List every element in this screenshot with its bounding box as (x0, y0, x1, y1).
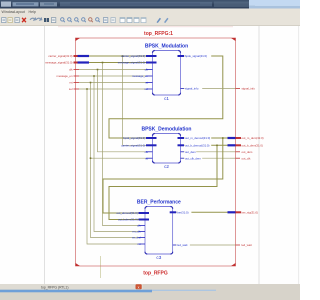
svg-text:Window: Window (2, 10, 15, 14)
svg-text:out_bdem(31:0): out_bdem(31:0) (118, 218, 138, 222)
toolbar icon 8 (doc) (51, 18, 55, 23)
pin c1 rst (145, 81, 153, 85)
pin c2 carrier_signal (121, 143, 156, 147)
wire out_b_demod to port (184, 144, 228, 146)
title bar right (inactive light area) (249, 0, 300, 9)
pin c2 out_dem (181, 150, 197, 154)
svg-text:bpsk_signal(31:0): bpsk_signal(31:0) (123, 136, 145, 140)
toolbar icon 7 (bino) (44, 18, 49, 22)
svg-text:message_en: message_en (132, 74, 148, 78)
pin c1 bpsk_signal (178, 54, 212, 58)
pin c1 carrier_signal (121, 54, 156, 58)
svg-text:out_b_demod(31:0): out_b_demod(31:0) (185, 143, 209, 147)
pin c1 sel (144, 87, 152, 91)
toolbar icon 5 (arrow) (30, 17, 36, 20)
svg-text:rst: rst (145, 81, 148, 85)
svg-text:BPSK_Modulation: BPSK_Modulation (145, 43, 188, 49)
svg-text:carrier_signal(31:0): carrier_signal(31:0) (48, 54, 72, 58)
wire out_m_demod to port (184, 137, 228, 139)
pin c2 out_clk_dem (181, 156, 203, 160)
boundary corner marker top-left (76, 38, 81, 41)
wire clk branch to c2 (98, 70, 147, 152)
toolbar icon 12 (zoom) (82, 18, 86, 23)
tab underline (0, 290, 216, 293)
wire message_en branch to c3 (94, 76, 139, 232)
label top_RFPG:1 (144, 31, 173, 37)
svg-text:clk: clk (145, 68, 149, 72)
junction sel branch (86, 88, 88, 90)
menu bar (0, 9, 300, 15)
toolbar icon 19 (pane) (134, 18, 139, 23)
wire sel branch to c3 (87, 89, 139, 244)
svg-text:BPSK_Demodulation: BPSK_Demodulation (141, 126, 191, 132)
svg-text:clk: clk (145, 150, 149, 154)
pin c1 message_en (132, 74, 153, 78)
wire message_signal bus to c1 (89, 62, 146, 64)
pin c3 out_bdem (118, 218, 149, 222)
output port ber (228, 210, 259, 214)
svg-text:rst: rst (145, 156, 148, 160)
toolbar icon 9 (zoom) (61, 18, 65, 23)
sheet right edge (258, 26, 260, 284)
svg-text:out_dem: out_dem (242, 150, 254, 154)
junction rst branch (90, 82, 92, 84)
canvas top faint line (58, 26, 233, 28)
toolbar icon 16 (doc) (111, 18, 115, 23)
input port rst (69, 81, 79, 85)
svg-text:c3: c3 (156, 255, 161, 260)
pin c1 signal_info (181, 87, 203, 91)
svg-text:out_b_dem(31:0): out_b_dem(31:0) (242, 143, 263, 147)
input port clk (69, 68, 79, 72)
output port out_clk_dem (230, 156, 251, 160)
pin c3 led_wait (173, 243, 190, 247)
pin c3 out_demod (116, 211, 149, 215)
pin c3 en_led (132, 236, 145, 240)
svg-text:Help: Help (29, 10, 36, 14)
svg-text:ber(31:0): ber(31:0) (177, 210, 188, 214)
svg-text:out_dem: out_dem (185, 150, 197, 154)
wire carrier_signal bus to c1 (89, 55, 146, 57)
svg-text:BER_Performance: BER_Performance (137, 199, 181, 205)
svg-text:Layout: Layout (14, 10, 25, 14)
toolbar icon 18 (pane) (127, 18, 132, 23)
svg-text:carrier_signal(31:0): carrier_signal(31:0) (121, 143, 145, 147)
pin c1 clk (145, 68, 153, 72)
wire signal_info to port (184, 88, 230, 90)
input port carrier_signal (48, 54, 89, 58)
wire out_m_demod branch to c3 (103, 138, 223, 213)
toolbar icon 10 (zoom) (68, 18, 72, 23)
tab close button (136, 284, 142, 289)
pin c3 ber (170, 210, 192, 214)
svg-text:out_m_demod(31:0): out_m_demod(31:0) (185, 136, 210, 140)
svg-text:out_demod(31:0): out_demod(31:0) (116, 211, 137, 215)
toolbar icon 14 (zoom) (96, 18, 100, 23)
svg-text:carrier_signal(31:0): carrier_signal(31:0) (121, 54, 145, 58)
toolbar icon 2 (open) (8, 18, 12, 23)
pin c2 rst (145, 156, 153, 160)
toolbar icon 15 (doc) (103, 18, 107, 23)
svg-text:c2: c2 (164, 164, 169, 169)
pin c3 en_clk (132, 230, 145, 234)
output port out_dem (230, 150, 253, 154)
svg-text:en_clk: en_clk (132, 230, 141, 234)
wire bpsk_signal c1 to c2 (109, 56, 223, 138)
window title bar (0, 0, 255, 9)
svg-text:c1: c1 (164, 96, 169, 101)
toolbar icon 22 (pen) (164, 18, 169, 23)
svg-text:en_led: en_led (132, 236, 141, 240)
svg-text:signal_info: signal_info (185, 87, 199, 91)
bottom tab bar (0, 284, 300, 300)
block c1 BPSK_Modulation (145, 43, 188, 101)
wire clk to c1 (79, 69, 146, 71)
svg-text:message_signal(31:0): message_signal(31:0) (118, 61, 146, 65)
input port sel (69, 87, 79, 91)
wire message branch to c3 (103, 63, 139, 226)
toolbar icon 13 (zoom) (89, 18, 93, 23)
svg-text:bpsk_signal(31:0): bpsk_signal(31:0) (185, 54, 207, 58)
output port out_m_demod (228, 136, 264, 140)
wire rst branch down (91, 83, 139, 238)
svg-text:top_RFPG:1: top_RFPG:1 (144, 31, 173, 37)
toolbar icon 1 (doc) (2, 18, 6, 23)
svg-text:out_clk: out_clk (242, 156, 251, 160)
svg-text:x: x (138, 285, 140, 289)
junction carrier branch (122, 55, 124, 57)
output port out_b_demod (228, 143, 263, 147)
svg-text:top_RFPG: top_RFPG (143, 271, 168, 277)
toolbar icon 6 (arrow) (36, 17, 42, 20)
toolbar (0, 15, 300, 27)
block c2 BPSK_Demodulation (141, 126, 191, 169)
toolbar icon 21 (pen) (157, 18, 162, 23)
wire ber bus to port (176, 211, 227, 213)
wire out_b_demod branch to c3 (109, 145, 217, 219)
svg-text:out_clk_dem: out_clk_dem (185, 156, 202, 160)
junction out_m branch (222, 137, 224, 139)
faint page mark (100, 256, 102, 278)
toolbar icon 17 (pane) (120, 18, 125, 23)
wire led_wait to port (176, 244, 230, 246)
wire sel to c1 (79, 88, 146, 90)
boundary corner marker top-right (231, 38, 236, 41)
top-level boundary top_RFPG (76, 38, 236, 266)
block c3 BER_Performance (137, 199, 181, 260)
pin c3 rst (137, 242, 145, 246)
toolbar icon 11 (zoom) (75, 18, 79, 23)
svg-text:ber_sig(31:0): ber_sig(31:0) (242, 210, 259, 214)
svg-text:out_m_dem(31:0): out_m_dem(31:0) (242, 136, 264, 140)
svg-text:sel: sel (144, 87, 148, 91)
pin c3 clk (137, 224, 145, 228)
svg-text:message_en: message_en (56, 74, 72, 78)
wire rst to c1 (79, 82, 146, 84)
pin c2 clk (145, 150, 153, 154)
svg-text:clk: clk (137, 224, 141, 228)
junction rst branch c2 (90, 157, 92, 159)
pin c2 out_b_demod (178, 143, 212, 147)
wire rst branch to c2 (91, 157, 147, 159)
junction message branch (102, 62, 104, 64)
wire out_clk_dem to port (184, 157, 230, 159)
output port led_wait (230, 243, 252, 247)
svg-text:rst: rst (69, 81, 72, 85)
pin c2 out_m_demod (178, 136, 212, 140)
boundary corner marker bottom-left (76, 263, 81, 266)
wire message_en to c1 (79, 75, 146, 77)
svg-text:led_wait: led_wait (177, 243, 187, 247)
junction message_en branch (93, 75, 95, 77)
svg-text:top_RFPG (RTL1): top_RFPG (RTL1) (41, 286, 68, 290)
input port message_en (56, 74, 79, 78)
svg-text:signal_info: signal_info (242, 87, 256, 91)
window right border (298, 26, 300, 284)
toolbar icon 3 (save) (15, 18, 19, 23)
svg-text:rst: rst (137, 242, 140, 246)
toolbar icon 4 (x) (22, 18, 26, 22)
pin c1 message_signal (118, 61, 157, 65)
junction out_b branch (216, 145, 218, 147)
svg-text:sel: sel (69, 87, 73, 91)
label top_RFPG (143, 271, 168, 277)
toolbar icon 20 (pane) (141, 18, 146, 23)
svg-text:clk: clk (69, 68, 73, 72)
sheet left edge (44, 26, 46, 284)
output port signal_info (230, 87, 255, 91)
junction clk branch (97, 69, 99, 71)
svg-text:led_wait: led_wait (242, 243, 252, 247)
wire out_dem to port (184, 151, 230, 153)
pin c2 bpsk_signal (123, 136, 156, 140)
boundary corner marker bottom-right (231, 263, 236, 266)
wire carrier branch to c2 (123, 56, 147, 145)
input port message_signal (45, 61, 89, 65)
svg-text:message_signal(31:0): message_signal(31:0) (45, 61, 73, 65)
